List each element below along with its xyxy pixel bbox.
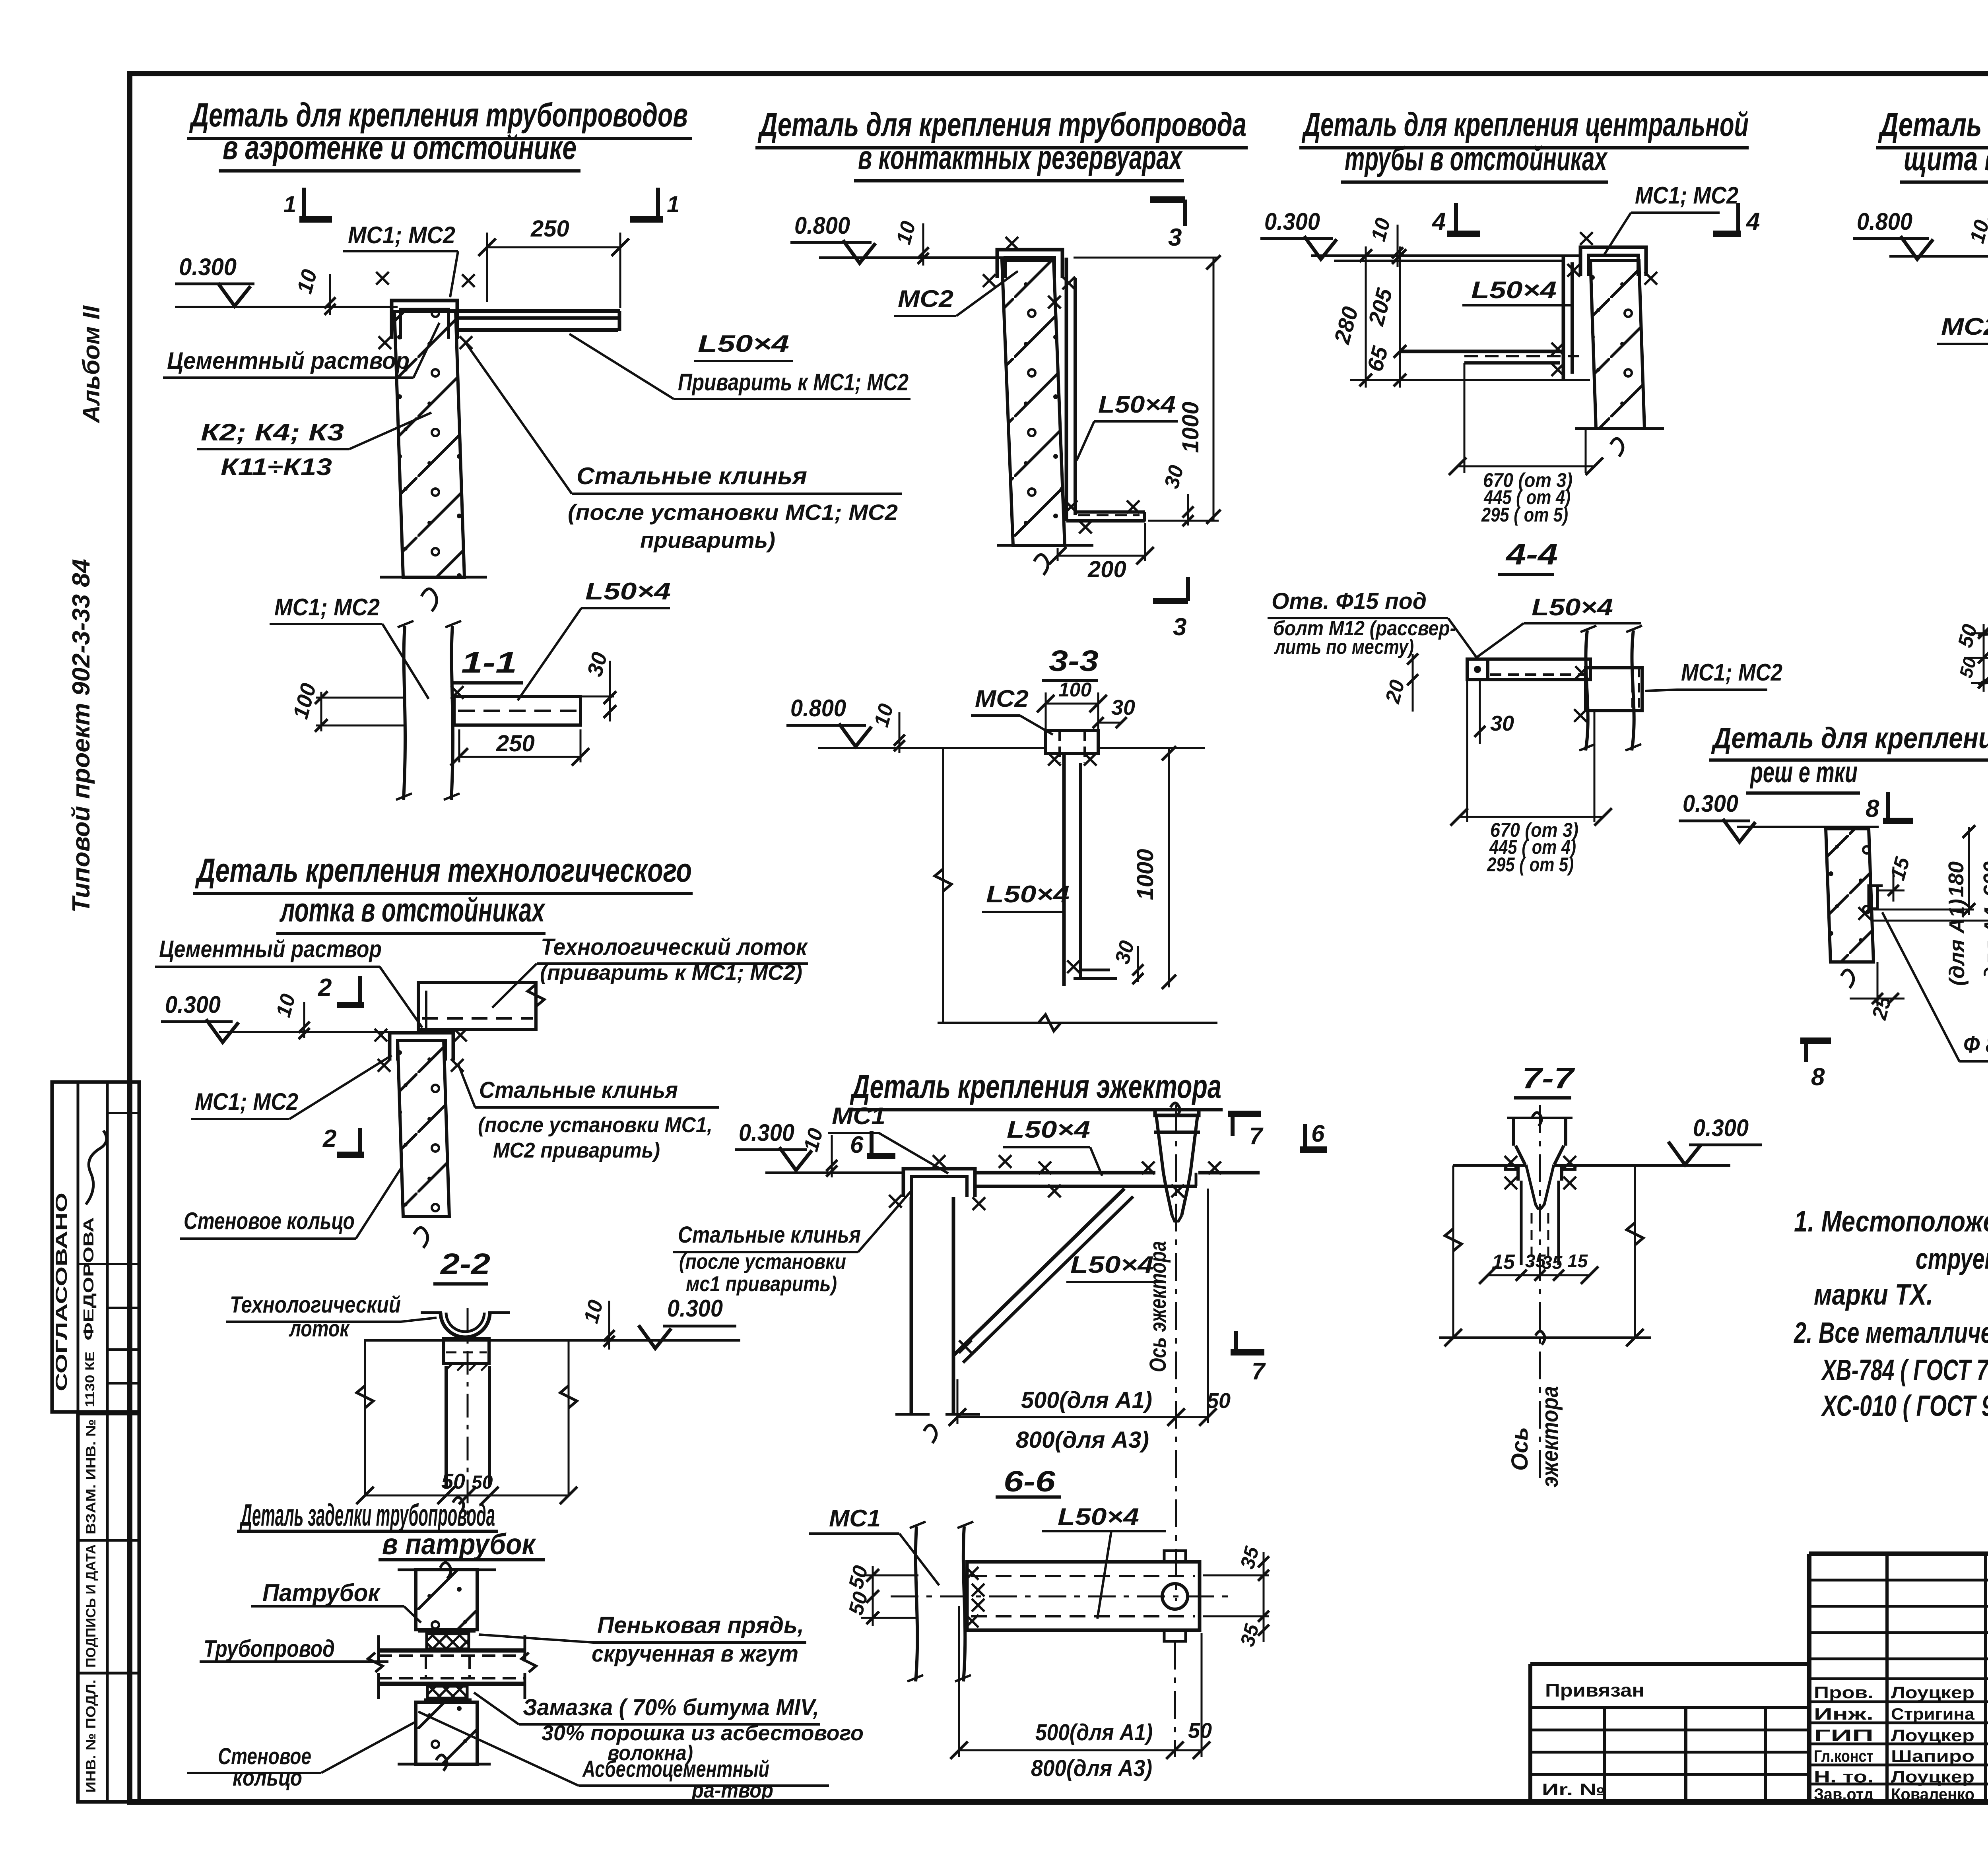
svg-text:К2; К4; К3: К2; К4; К3 [201,419,344,446]
svg-text:реш е тки: реш е тки [1750,756,1858,789]
sidebar strip Взам. инв. № [78,1414,139,1802]
section 6-6 wall plan strip [916,1526,917,1681]
detail H section mark 6 right [1303,1124,1307,1150]
svg-text:8: 8 [1811,1063,1825,1091]
svg-text:ВЗАМ. ИНВ. №: ВЗАМ. ИНВ. № [83,1419,99,1534]
svg-text:(после установки: (после установки [679,1250,846,1274]
section 6-6 centerline [891,1596,1233,1598]
title block привязан extension [1530,1662,1809,1666]
detail H diagonal brace L50x4 [954,1189,1124,1355]
svg-text:ИНВ. № ПОДЛ.: ИНВ. № ПОДЛ. [83,1679,99,1793]
svg-text:Альбом II: Альбом II [78,305,105,424]
section 4-4 bottom dim [1466,680,1468,822]
section 5-5 centerline [1964,657,1988,659]
svg-text:Стальные клинья: Стальные клинья [678,1222,861,1248]
detail F wall pier [1826,829,1873,962]
svg-text:струенаправляющих щитов см. н: струенаправляющих щитов см. на чертежах [1916,1242,1988,1275]
svg-text:МС2 приварить): МС2 приварить) [493,1138,660,1162]
detail F section mark 8 bottom [1800,1037,1831,1044]
detail A section mark 1 left [302,188,306,219]
detail A bracket МС1/МС2 c-channel [392,301,457,339]
detail C pipe hole dashes [425,1657,427,1677]
svg-text:50: 50 [1188,1719,1212,1743]
svg-text:30% порошка из асбестового: 30% порошка из асбестового [542,1721,864,1745]
svg-text:3-3: 3-3 [1049,644,1099,677]
svg-text:МС1; МС2: МС1; МС2 [1635,182,1738,209]
svg-text:в аэротенке и отстойнике: в аэротенке и отстойнике [223,129,577,166]
svg-text:15: 15 [1492,1251,1515,1274]
svg-text:Ось: Ось [1507,1427,1533,1471]
svg-text:ра-твор: ра-твор [691,1778,773,1802]
svg-text:Деталь крепления струенаправля: Деталь крепления струенаправляющего [1878,106,1988,143]
detail D floor line [1311,254,1580,257]
svg-text:лить по месту): лить по месту) [1274,636,1414,659]
section 2-2 tray half-round [441,1313,490,1337]
svg-text:200: 200 [1087,557,1126,582]
svg-text:Лоуцкер: Лоуцкер [1891,1767,1974,1786]
svg-text:Н. то.: Н. то. [1814,1767,1873,1786]
svg-text:800(для А3): 800(для А3) [1031,1755,1152,1781]
section 7-7 floor line [1453,1164,1526,1167]
svg-text:Шапиро: Шапиро [1891,1747,1974,1765]
detail C upper wall патрубок [416,1570,477,1630]
svg-text:МС1; МС2: МС1; МС2 [274,594,380,621]
svg-text:ГИП: ГИП [1814,1726,1873,1745]
detail D vertical angle [1562,256,1565,380]
title block outer [1809,1551,1988,1556]
section 3-3 bottom angle [1081,969,1110,972]
detail H section mark 7 top [1228,1111,1261,1117]
svg-text:35: 35 [1542,1252,1563,1273]
svg-text:Патрубок: Патрубок [262,1579,381,1607]
svg-text:лотка в отстойниках: лотка в отстойниках [279,891,546,929]
svg-text:L50×4: L50×4 [585,578,671,605]
svg-text:МС1: МС1 [829,1505,881,1532]
svg-text:0.300: 0.300 [1693,1115,1749,1141]
svg-text:Технологический: Технологический [230,1292,401,1318]
detail B tray box [418,983,536,1030]
svg-text:Пеньковая прядь,: Пеньковая прядь, [597,1612,804,1638]
svg-text:МС2: МС2 [975,685,1029,712]
svg-text:1-1: 1-1 [461,646,517,679]
section 2-2 wall below [445,1366,448,1487]
svg-text:7: 7 [1249,1123,1264,1149]
svg-text:1: 1 [667,192,679,217]
detail C lower wall стеновое кольцо [416,1702,477,1764]
svg-text:2: 2 [322,1125,336,1152]
detail H level line [765,1171,903,1174]
detail A floor level line [175,306,398,308]
svg-text:3: 3 [1173,613,1186,641]
svg-text:МС1: МС1 [832,1103,885,1129]
section 7-7 dims 15 35 35 15 [1488,1274,1590,1276]
detail G section mark 3 bottom [1153,598,1188,604]
svg-text:Деталь крепления технологическ: Деталь крепления технологического [195,851,692,889]
svg-text:Гл.конст: Гл.конст [1814,1747,1873,1765]
svg-text:МС2: МС2 [898,285,953,312]
title block name-table rows top [1809,1579,1988,1582]
svg-text:295 ( от 5): 295 ( от 5) [1487,853,1574,876]
section 2-2 dim 50 50 [365,1495,569,1497]
svg-text:6-6: 6-6 [1004,1465,1056,1498]
svg-text:ФЕДОРОВА: ФЕДОРОВА [80,1217,97,1340]
detail B floor line [219,1031,400,1033]
section 3-3 dim lines vertical [942,748,944,1023]
section 6-6 bolt hole [1162,1584,1188,1609]
section 7-7 funnel top [1512,1118,1515,1146]
section 7-7 bracket [1516,1165,1520,1181]
svg-text:Отв. Ф15 под: Отв. Ф15 под [1272,588,1427,614]
svg-text:L50×4: L50×4 [1058,1503,1139,1530]
section 6-6 plate plan [967,1562,1200,1630]
svg-text:Цементный раствор: Цементный раствор [159,936,382,962]
svg-text:1000: 1000 [1178,401,1204,453]
svg-text:Лоуцкер: Лоуцкер [1891,1726,1974,1745]
svg-text:500(для А1): 500(для А1) [1035,1720,1153,1745]
detail G bottom angle [1075,510,1145,514]
svg-text:(для А1): (для А1) [1945,899,1969,986]
detail D wall pier [1590,260,1644,429]
svg-text:600: 600 [1979,861,1988,897]
detail A section mark 1 right [656,188,660,219]
svg-text:0.800: 0.800 [794,212,850,239]
svg-text:0.300: 0.300 [1683,790,1738,817]
svg-text:Деталь для крепления центральн: Деталь для крепления центральной [1302,106,1749,143]
svg-text:0.300: 0.300 [667,1295,723,1322]
svg-text:3: 3 [1168,224,1182,251]
detail B bracket c-channel [390,1033,453,1061]
detail H bracket c-channel [903,1169,975,1197]
svg-text:1130 КЕ: 1130 КЕ [83,1352,97,1407]
section 6-6 dim 50 50 left [872,1566,874,1626]
section 1-1 wall plan strip [404,626,405,800]
detail D tube bottom lines [1400,350,1564,353]
svg-text:МС1; МС2: МС1; МС2 [195,1088,298,1115]
detail G section mark 3 top [1150,196,1185,203]
svg-text:Инж.: Инж. [1814,1705,1873,1723]
svg-text:6: 6 [850,1131,864,1158]
detail C pipe [379,1648,525,1653]
svg-text:трубы в отстойниках: трубы в отстойниках [1345,140,1608,177]
detail C lower packing [427,1686,467,1698]
section 5-5 dim 50 50 [1983,624,1985,692]
svg-text:500(для А1): 500(для А1) [1021,1387,1152,1413]
section 3-3 top line [818,747,1046,749]
section 6-6 dim 500/800 bottom [959,1749,1202,1751]
svg-text:Типовой проект 902-3-33 84: Типовой проект 902-3-33 84 [68,559,95,913]
detail H section mark 7 bottom [1231,1349,1264,1356]
title block name-table columns [1885,1554,1889,1802]
detail C pipe end verticals [377,1635,380,1662]
svg-text:2. Все металлические конструкц: 2. Все металлические конструкции окрасит… [1793,1316,1988,1349]
svg-text:МС2: МС2 [1941,313,1988,340]
svg-text:0.300: 0.300 [1264,208,1320,235]
section 2-2 floor line [364,1339,569,1342]
svg-text:L50×4: L50×4 [698,330,789,357]
detail D bracket c-channel [1580,247,1646,276]
svg-text:Ф 8АІ ℓ = 45: Ф 8АІ ℓ = 45 [1963,1031,1988,1058]
svg-text:15: 15 [1567,1251,1588,1271]
svg-text:Деталь крепления эжектора: Деталь крепления эжектора [850,1068,1221,1105]
section 6-6 dim 35 35 right [1263,1552,1265,1642]
detail H ejector funnel [1155,1109,1199,1115]
svg-text:эжектора: эжектора [1537,1386,1563,1487]
svg-text:30: 30 [1111,696,1135,719]
svg-text:30: 30 [1490,712,1514,735]
svg-text:8: 8 [1866,795,1879,822]
section 3-3 bracket section [1046,731,1098,754]
svg-text:лоток: лоток [289,1316,350,1342]
detail G wall pier [1002,260,1065,545]
detail H dim 500/800 [957,1416,1208,1418]
section 2-2 dim verticals [364,1340,366,1495]
svg-text:800(для А3): 800(для А3) [1016,1427,1149,1453]
svg-text:50: 50 [441,1470,465,1493]
section 5-5 wall plan strip [1983,633,1988,635]
sidebar stamp box СОГЛАСОВАНО [52,1082,139,1412]
svg-text:приварить): приварить) [640,527,775,553]
svg-text:Цементный раствор: Цементный раствор [167,347,410,374]
svg-text:Лоуцкер: Лоуцкер [1891,1683,1974,1702]
section 7-7 axis [1539,1105,1541,1485]
svg-text:4-4: 4-4 [1505,538,1558,571]
svg-text:Привязан: Привязан [1545,1680,1644,1701]
detail B wall pier [398,1041,449,1216]
svg-text:Замазка ( 70% битума МIV,: Замазка ( 70% битума МIV, [523,1695,819,1720]
svg-text:Стальные клинья: Стальные клинья [479,1077,678,1103]
svg-text:0.800: 0.800 [1857,208,1912,235]
svg-text:в патрубок: в патрубок [382,1528,536,1561]
detail H wall column [910,1197,913,1414]
svg-text:L50×4: L50×4 [1532,594,1613,621]
svg-text:МС1; МС2: МС1; МС2 [348,222,455,248]
section 4-4 plate [1467,659,1590,680]
detail A angle plate L50x4 [414,309,620,313]
svg-text:ХВ-784 ( ГОСТ 7313-75) за 3 р: ХВ-784 ( ГОСТ 7313-75) за 3 раза по двум… [1821,1354,1988,1387]
svg-text:Стеновое кольцо: Стеновое кольцо [184,1208,355,1234]
svg-text:250: 250 [496,731,535,756]
svg-text:ХС-010 ( ГОСТ 9355-81).: ХС-010 ( ГОСТ 9355-81). [1821,1389,1988,1422]
svg-text:L50×4: L50×4 [986,881,1070,908]
svg-text:Технологический лоток: Технологический лоток [541,934,808,960]
svg-text:50: 50 [472,1472,493,1493]
svg-text:для А4: для А4 [1980,907,1988,980]
svg-text:L50×4: L50×4 [1471,277,1557,303]
section 3-3 vertical plate [1062,754,1066,986]
svg-text:мс1 приварить): мс1 приварить) [686,1272,837,1296]
detail A wall concrete pier [394,312,464,577]
detail F grate bracket [1869,884,1883,887]
svg-text:1. Местоположение трубопроводо: 1. Местоположение трубопроводов, эжектор… [1794,1205,1988,1238]
svg-text:1000: 1000 [1132,849,1158,900]
svg-text:Пров.: Пров. [1814,1683,1873,1702]
detail H horizontal plate [975,1171,1155,1175]
svg-text:кольцо: кольцо [233,1765,302,1791]
svg-text:0.300: 0.300 [165,991,221,1018]
section 7-7 bottom line [1439,1336,1651,1339]
detail D section mark 4 right [1713,231,1741,237]
svg-text:Стальные клинья: Стальные клинья [577,463,807,489]
section 1-1 plate plan [454,696,580,725]
svg-text:L50×4: L50×4 [1070,1251,1154,1278]
svg-text:0.300: 0.300 [179,254,237,280]
svg-text:Деталь для крепления трубопров: Деталь для крепления трубопроводов [189,96,688,134]
svg-text:2: 2 [318,974,332,1001]
svg-text:К11÷К13: К11÷К13 [221,454,332,480]
svg-text:L50×4: L50×4 [1007,1116,1090,1143]
svg-text:4: 4 [1431,208,1446,235]
svg-text:скрученная в жгут: скрученная в жгут [592,1641,798,1667]
svg-text:180: 180 [1944,861,1968,897]
section 2-2 support plate [444,1339,489,1363]
section 3-3 bottom line [938,1022,1217,1024]
detail E floor line [1889,255,1988,258]
detail F dims 180 600 [1968,827,1970,915]
detail D bottom dim 670/445/295 [1458,465,1594,467]
section 4-4 bracket plan [1586,668,1642,711]
detail F dim 25 [1877,962,1879,1006]
svg-text:L50×4: L50×4 [1098,391,1176,418]
svg-text:ПОДПИСЬ И ДАТА: ПОДПИСЬ И ДАТА [83,1544,99,1668]
section 7-7 pipe dashed sides [1520,1181,1523,1265]
svg-text:Трубопровод: Трубопровод [204,1635,335,1662]
svg-text:0.300: 0.300 [739,1119,794,1146]
svg-text:(приварить к МС1; МС2): (приварить к МС1; МС2) [540,961,802,985]
svg-text:СОГЛАСОВАНО: СОГЛАСОВАНО [53,1193,70,1391]
section 7-7 nozzle tip [1526,1165,1554,1208]
svg-text:7: 7 [1252,1358,1266,1385]
detail G floor line [819,256,1005,259]
section 4-4 pipe wall plan [1586,630,1588,750]
svg-text:295 ( от 5): 295 ( от 5) [1481,504,1568,526]
svg-text:7-7: 7-7 [1522,1062,1576,1095]
detail G bracket МС2 c-channel [997,250,1062,278]
signature squiggle [86,1131,107,1204]
svg-text:50: 50 [1207,1389,1231,1413]
svg-text:100: 100 [1058,679,1092,701]
svg-text:марки ТХ.: марки ТХ. [1814,1278,1933,1311]
detail H axis line [1175,1105,1177,1601]
svg-text:Приварить к МС1; МС2: Приварить к МС1; МС2 [678,369,909,396]
svg-text:2-2: 2-2 [440,1247,490,1280]
svg-text:(после установки МС1,: (после установки МС1, [478,1113,712,1137]
svg-text:1: 1 [283,192,296,217]
detail C upper packing [418,1630,476,1633]
svg-text:250: 250 [530,216,569,242]
svg-text:Деталь для крепления: Деталь для крепления [1711,721,1988,754]
svg-text:Иr. №: Иr. № [1542,1780,1606,1799]
svg-text:Стригина: Стригина [1891,1705,1975,1723]
svg-text:щита в контактных резервуарах.: щита в контактных резервуарах. [1904,140,1988,177]
svg-text:(после установки МС1; МС2: (после установки МС1; МС2 [568,500,898,525]
section 7-7 side dim lines [1452,1165,1454,1338]
detail G vertical plate L50x4 [1065,258,1068,521]
svg-text:в контактных резервуарах: в контактных резервуарах [858,139,1183,176]
svg-text:МС1; МС2: МС1; МС2 [1681,659,1782,686]
svg-text:4: 4 [1745,208,1760,235]
detail F floor line [1737,826,1879,828]
svg-text:0.800: 0.800 [790,695,846,721]
svg-text:6: 6 [1311,1120,1325,1147]
title block name-table rows bottom [1809,1701,1988,1703]
title block bottom edge [1530,1800,1988,1804]
svg-text:Деталь для крепления трубопров: Деталь для крепления трубопровода [757,106,1246,143]
svg-text:Деталь заделки трубопровода: Деталь заделки трубопровода [239,1497,495,1532]
